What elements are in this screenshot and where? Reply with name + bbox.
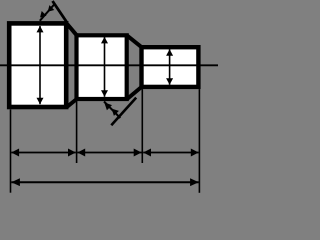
- shoulder edge top (section1-section2): [67, 24, 76, 35]
- row1 segC left arrowhead: [143, 149, 151, 157]
- extension line left (x=10.5): [10, 110, 12, 193]
- arrowhead up section 1: [37, 26, 44, 33]
- row1 segA left arrowhead: [11, 149, 19, 157]
- overall length dimension row2 line: [11, 181, 198, 183]
- extension line mid-right (x=142.3): [141, 89, 143, 163]
- arrowhead up section 2: [101, 37, 108, 44]
- row1 segC right arrowhead: [191, 149, 199, 157]
- chamfer callout arrowhead 1: [40, 11, 47, 18]
- diameter dimension line section 2: [104, 37, 106, 97]
- shoulder edge bottom (section1-section2): [67, 99, 77, 107]
- taper callout arrowhead 1: [104, 102, 112, 110]
- centerline: [0, 64, 218, 66]
- shaft section 3 (small cylinder): [142, 47, 199, 87]
- length dimension row1 segment C line: [143, 152, 198, 154]
- row2 right arrowhead: [190, 178, 199, 186]
- extension line mid-left (x=76.6): [76, 100, 78, 163]
- taper callout leader leg: [111, 98, 136, 126]
- arrowhead up section 3: [166, 49, 173, 56]
- extension line right (x=199.4): [198, 89, 200, 193]
- row1 segA right arrowhead: [68, 149, 76, 157]
- chamfer callout arrow line: [40, 4, 55, 21]
- shaft section 1 (large cylinder): [9, 23, 66, 107]
- row2 left arrowhead: [11, 178, 20, 186]
- taper edge bottom (section2-section3): [127, 87, 141, 99]
- taper edge top (section2-section3): [127, 36, 141, 47]
- arrowhead down section 1: [37, 98, 44, 105]
- arrowhead down section 3: [166, 78, 173, 85]
- shaft section 2 (middle cylinder): [77, 35, 127, 99]
- length dimension row1 segment A line: [11, 152, 76, 154]
- row1 segB right arrowhead: [134, 149, 142, 157]
- taper callout arrowhead 2: [112, 109, 119, 116]
- taper callout arrow line: [104, 102, 120, 119]
- arrowhead down section 2: [101, 90, 108, 97]
- row1 segB left arrowhead: [77, 149, 85, 157]
- length dimension row1 segment B line: [77, 152, 141, 154]
- diameter dimension line section 1: [39, 26, 41, 104]
- chamfer callout arrowhead 2: [48, 5, 55, 12]
- diameter dimension line section 3: [169, 49, 171, 84]
- chamfer callout leader leg (to chamfer corner): [53, 1, 68, 23]
